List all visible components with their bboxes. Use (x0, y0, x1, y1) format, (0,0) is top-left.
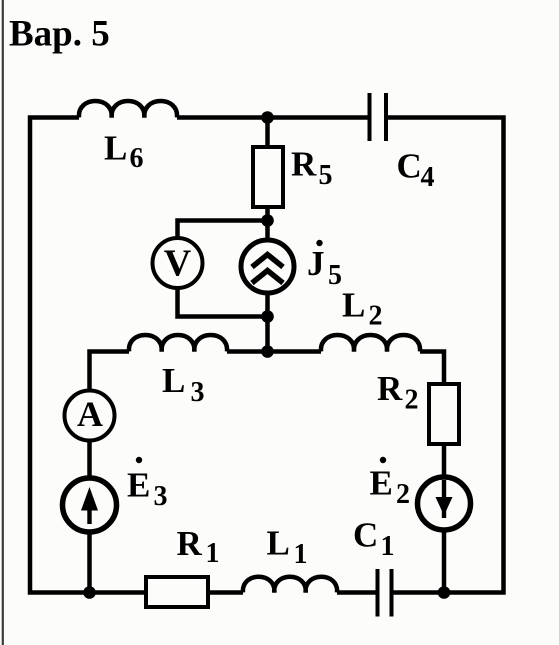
svg-text:R: R (177, 524, 203, 563)
svg-text:1: 1 (381, 531, 395, 562)
resistor R2 (429, 384, 459, 444)
label J5 (307, 240, 342, 291)
wire middle center (227, 349, 321, 354)
svg-text:C: C (397, 147, 422, 186)
wire R2 to E2 (442, 444, 447, 478)
svg-text:L: L (162, 361, 185, 400)
svg-text:3: 3 (154, 481, 168, 512)
node top junction (261, 111, 274, 124)
inductor L2 (321, 335, 420, 352)
svg-text:L: L (342, 286, 365, 325)
label R2 (377, 369, 419, 416)
label C1 (353, 516, 395, 563)
inductor L6 (79, 101, 177, 118)
node bottom-right junction (438, 586, 451, 599)
node bottom-left junction (83, 586, 96, 599)
source E3 (63, 478, 117, 532)
svg-text:5: 5 (319, 160, 333, 191)
svg-text:1: 1 (294, 539, 308, 570)
svg-text:2: 2 (369, 301, 383, 332)
voltmeter V (153, 238, 203, 288)
wire middle-left with corner to ammeter (90, 352, 130, 392)
svg-text:R: R (291, 145, 317, 184)
source E2 (418, 477, 471, 530)
wire middle-right with corner to R2 (420, 352, 444, 385)
wire junction to R5 (265, 118, 270, 148)
svg-text:Вар. 5: Вар. 5 (9, 14, 110, 55)
svg-text:V: V (164, 243, 192, 285)
svg-text:4: 4 (421, 162, 435, 193)
label E3 (127, 457, 168, 512)
resistor R1 (146, 577, 208, 607)
wire R5 to J5 (265, 207, 270, 240)
capacitor C4 (370, 93, 387, 141)
wire voltmeter bottom branch (178, 287, 268, 317)
wire L1 to C1 (337, 590, 376, 595)
wire E2 to bottom (442, 530, 447, 593)
svg-text:6: 6 (130, 143, 144, 174)
E3 arrow up (81, 487, 98, 524)
wire R1 to L1 (208, 590, 243, 595)
wire J5 to middle node (265, 293, 270, 352)
J5 chevron upper (252, 255, 283, 268)
page edge line (2, 0, 4, 645)
svg-text:2: 2 (405, 385, 419, 416)
label R5 (291, 145, 333, 192)
svg-text:R: R (377, 369, 403, 408)
resistor R5 (253, 147, 283, 207)
inductor L3 (129, 335, 227, 352)
wire top middle (177, 115, 368, 120)
svg-text:C: C (353, 516, 378, 555)
wire top-right, right edge, bottom-right (388, 118, 504, 593)
svg-text:J: J (307, 244, 325, 283)
svg-text:5: 5 (328, 260, 342, 291)
node below J5 (261, 310, 274, 323)
wire A to E3 (87, 440, 92, 479)
capacitor C1 (378, 569, 392, 617)
svg-text:E: E (127, 466, 150, 505)
svg-text:3: 3 (191, 377, 205, 408)
label L2 (342, 286, 383, 332)
svg-text:L: L (267, 524, 290, 563)
svg-text:A: A (77, 394, 103, 434)
current source J5 (241, 240, 294, 293)
svg-text:E: E (370, 464, 393, 503)
label L3 (162, 361, 205, 408)
svg-text:1: 1 (206, 538, 220, 569)
wire E3 to bottom (87, 532, 92, 593)
node below R5 (261, 214, 274, 227)
svg-text:2: 2 (396, 479, 410, 510)
label R1 (177, 524, 220, 569)
node middle junction (261, 345, 274, 358)
E2 arrow down (436, 480, 453, 518)
ammeter A (65, 391, 115, 441)
label C4 (397, 147, 435, 194)
label E2 (370, 457, 411, 510)
label L1 (267, 524, 308, 571)
J5 chevron lower (252, 271, 283, 284)
wire left loop (top-left, left edge, bottom-left) (30, 118, 146, 593)
svg-text:L: L (104, 129, 127, 168)
wire voltmeter top branch (178, 221, 268, 241)
inductor L1 (243, 577, 337, 593)
label L6 (104, 129, 144, 175)
